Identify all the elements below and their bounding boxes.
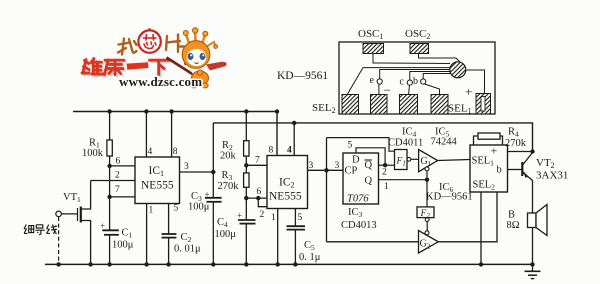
bond wire pad1 diagonal to die: [348, 68, 451, 94]
svg-text:5: 5: [174, 204, 179, 214]
pad bottom 3: [400, 95, 418, 115]
svg-text:IC1: IC1: [149, 165, 165, 178]
svg-text:5: 5: [298, 213, 303, 223]
svg-text:G2: G2: [420, 239, 431, 251]
node C4 gnd: [244, 262, 248, 266]
bond wire c to die: [410, 72, 450, 81]
node R2 R3 junction: [244, 163, 248, 167]
svg-text:OSC1: OSC1: [358, 28, 383, 41]
svg-text:5: 5: [348, 141, 353, 151]
svg-text:6: 6: [116, 157, 121, 167]
wire emitter to speaker: [532, 181, 534, 265]
wire switched-rail column / node pin3: [212, 123, 214, 198]
svg-text:+: +: [237, 211, 242, 221]
wire G1 out to SEL1: [438, 160, 470, 161]
node VT1 source gnd: [88, 262, 92, 266]
node SEL gnd: [479, 262, 483, 266]
buffer G2 (74244): [419, 231, 439, 254]
svg-text:270k: 270k: [505, 138, 527, 149]
wire pad4 to b: [425, 84, 440, 95]
node Qbar junction pin2: [383, 163, 387, 167]
svg-text:6: 6: [257, 187, 262, 197]
svg-text:1: 1: [384, 182, 389, 192]
svg-text:C2: C2: [181, 232, 192, 244]
svg-text:+: +: [491, 144, 498, 158]
wire pad3 to c: [408, 85, 411, 94]
capacitor C1: [109, 197, 111, 230]
wire G1 enable from Q: [426, 171, 428, 180]
flip-flop IC3 CD4013 box: [343, 153, 379, 204]
svg-text:VT1: VT1: [63, 192, 81, 204]
svg-text:VT2: VT2: [536, 157, 555, 170]
svg-text:+: +: [205, 189, 210, 199]
wire IC2 pin1: [277, 209, 279, 265]
wire IC1 pin7: [110, 196, 135, 198]
svg-text:NE555: NE555: [269, 191, 302, 203]
svg-text:7: 7: [255, 156, 260, 166]
svg-text:2: 2: [382, 168, 387, 178]
wire IC1 pin2 from VT1: [91, 180, 135, 182]
svg-text:3AX31: 3AX31: [536, 170, 568, 182]
svg-text:4: 4: [148, 147, 153, 157]
watermark logo dzsc: [82, 28, 227, 89]
bond wire b to die: [423, 74, 450, 79]
red text weikuyixia: [84, 60, 171, 76]
node C2 gnd: [166, 262, 170, 266]
bond wire OSC2 to die: [419, 54, 460, 62]
glyph pian orange outlined: [166, 35, 184, 53]
svg-text:T076: T076: [347, 194, 369, 205]
pad bottom 5 with slot: [476, 94, 491, 115]
wire F1 to G1: [411, 158, 419, 160]
wire + pin to V+ node: [508, 151, 533, 153]
node V+ collector junction: [530, 149, 534, 153]
svg-text:Q: Q: [365, 176, 373, 187]
wire clock vertical: [326, 138, 328, 242]
wire IC1 pin8: [171, 112, 173, 158]
svg-text:SEL1: SEL1: [448, 103, 472, 116]
node Q to F2 junction: [425, 178, 429, 182]
svg-text:KD—9561: KD—9561: [277, 70, 328, 82]
wire SEL box gnd stub: [480, 192, 482, 264]
svg-text:100k: 100k: [82, 148, 104, 159]
svg-text:100μ: 100μ: [112, 240, 134, 251]
node speaker gnd: [530, 262, 534, 266]
node C1 gnd: [107, 262, 111, 266]
terminal b: [421, 79, 426, 84]
node touch-gnd: [56, 262, 60, 266]
bond wire OSC1 to die: [373, 54, 450, 64]
transistor VT2: [508, 169, 522, 171]
svg-text:C1: C1: [122, 228, 133, 240]
svg-text:100μ: 100μ: [215, 229, 237, 240]
wire pad2 to e: [378, 84, 380, 94]
svg-text:C4: C4: [217, 217, 228, 229]
capacitor C3: [205, 197, 222, 199]
wire IC1 pin6: [110, 165, 135, 167]
node R1 pin6 junction: [107, 164, 111, 168]
wire V+ top rail: [73, 112, 277, 156]
wire IC1 pin4: [145, 112, 147, 158]
node rail dots top: [107, 109, 111, 113]
wire IC2 pin7: [246, 164, 267, 166]
capacitor C5: [294, 209, 296, 227]
svg-text:+: +: [100, 221, 105, 231]
svg-text:b: b: [497, 165, 502, 176]
svg-text:100μ: 100μ: [188, 202, 210, 213]
svg-text:4: 4: [287, 146, 292, 156]
node R3 pin6 junction: [244, 196, 248, 200]
wire IC3 pin5 D loop: [356, 148, 385, 165]
svg-text:R4: R4: [508, 127, 519, 139]
svg-text:www.dzsc.com: www.dzsc.com: [119, 74, 202, 89]
svg-text:b: b: [413, 76, 418, 87]
capacitor C4: [245, 198, 247, 220]
speaker B: [528, 213, 537, 228]
wire Qbar to F1: [379, 164, 395, 166]
svg-text:2: 2: [115, 171, 120, 181]
pad OSC2: [410, 44, 429, 54]
svg-text:3: 3: [309, 161, 314, 171]
wire IC1 pin3 out: [180, 171, 214, 173]
label touch wire (chinese): [24, 224, 57, 234]
svg-text:270k: 270k: [218, 181, 240, 192]
svg-text:20k: 20k: [220, 151, 237, 162]
node R1 pin7 junction: [107, 195, 111, 199]
svg-text:Q: Q: [365, 160, 373, 171]
glyph zhao (find) orange outlined: [118, 39, 137, 55]
svg-text:74244: 74244: [431, 137, 458, 148]
svg-text:8: 8: [269, 146, 274, 156]
bond wire e to die: [380, 70, 450, 79]
terminal e: [377, 79, 382, 84]
node pin6 pin2 junction: [256, 196, 260, 200]
wire touch lead dashed: [58, 217, 60, 264]
op-amp IC2 NE555 box: [267, 156, 308, 209]
buffer G1 (74244): [419, 150, 438, 172]
svg-text:3: 3: [335, 161, 340, 171]
svg-text:7: 7: [115, 185, 120, 195]
svg-text:8: 8: [173, 147, 178, 157]
wire IC2 pin3 out: [308, 169, 344, 171]
node IC1 pin1 gnd: [144, 262, 148, 266]
capacitor C2: [168, 204, 170, 235]
node C5 gnd: [293, 262, 297, 266]
ground: [532, 264, 534, 271]
svg-text:−: −: [384, 83, 391, 98]
wire clock to F1 upper input: [327, 138, 395, 152]
svg-text:2: 2: [260, 210, 265, 220]
svg-text:B: B: [508, 210, 515, 221]
svg-text:C5: C5: [304, 240, 315, 252]
wire clock to G2 input: [327, 241, 419, 243]
svg-text:0. 1μ: 0. 1μ: [299, 252, 321, 263]
pad OSC1: [363, 44, 384, 54]
pad bottom 4: [431, 95, 448, 115]
svg-text:CD4011: CD4011: [388, 138, 423, 149]
node pin3 clock junction: [324, 168, 328, 172]
wire G2 out to SEL2: [438, 192, 497, 242]
svg-text:OSC2: OSC2: [405, 28, 430, 41]
svg-text:+: +: [465, 84, 472, 99]
pad bottom 2: [371, 95, 388, 115]
wire IC2 pin2: [258, 198, 267, 207]
svg-text:8Ω: 8Ω: [507, 220, 520, 231]
svg-text:F1: F1: [396, 157, 406, 168]
svg-text:1: 1: [149, 206, 154, 216]
svg-text:IC2: IC2: [279, 177, 295, 190]
svg-text:3: 3: [184, 162, 189, 172]
svg-text:NE555: NE555: [141, 180, 174, 192]
resistor R3: [245, 165, 247, 173]
svg-text:e: e: [370, 75, 375, 86]
svg-text:IC3: IC3: [348, 207, 363, 219]
wire IC2 pin6: [246, 197, 267, 199]
svg-text:CP: CP: [345, 166, 358, 177]
wire IC2 pin4 from switched rail: [293, 123, 295, 156]
op-amp IC1 NE555 box: [135, 157, 180, 204]
wire Q down to F2: [426, 180, 428, 207]
bond wire die to pad5: [467, 70, 485, 94]
resistor R4 across OSC pins: [474, 136, 479, 145]
wire switched rail from IC1 pin3: [213, 123, 532, 152]
svg-text:1: 1: [271, 213, 276, 223]
node C3 gnd: [211, 262, 215, 266]
wire GND bottom rail: [45, 263, 533, 265]
mascot: [167, 28, 227, 88]
svg-text:KD—9561: KD—9561: [426, 192, 473, 203]
pad SEL2 bottom 1: [342, 95, 359, 115]
wire IC1 pin1: [146, 204, 148, 265]
gate F2 (CD4011): [417, 207, 434, 218]
svg-text:c: c: [400, 77, 405, 88]
red circle badge with xin: [138, 30, 160, 52]
svg-text:0. 01μ: 0. 01μ: [174, 244, 201, 255]
svg-text:CD4013: CD4013: [341, 220, 377, 231]
node IC2 pin1 gnd: [276, 262, 280, 266]
resistor R1: [109, 112, 111, 141]
gate F1 (CD4011): [395, 150, 408, 170]
terminal c: [407, 80, 412, 85]
svg-text:SEL2: SEL2: [473, 180, 496, 192]
svg-text:G1: G1: [421, 156, 432, 168]
die circle: [450, 62, 466, 78]
wire F2 to G2 enable: [426, 222, 428, 231]
resistor R2: [245, 112, 247, 141]
svg-text:D: D: [352, 155, 360, 166]
KD-9561 package outline: [339, 42, 495, 114]
svg-text:SEL2: SEL2: [312, 102, 336, 115]
IC6 KD-9561 SEL box: [470, 145, 508, 192]
wire Q out: [379, 179, 428, 181]
